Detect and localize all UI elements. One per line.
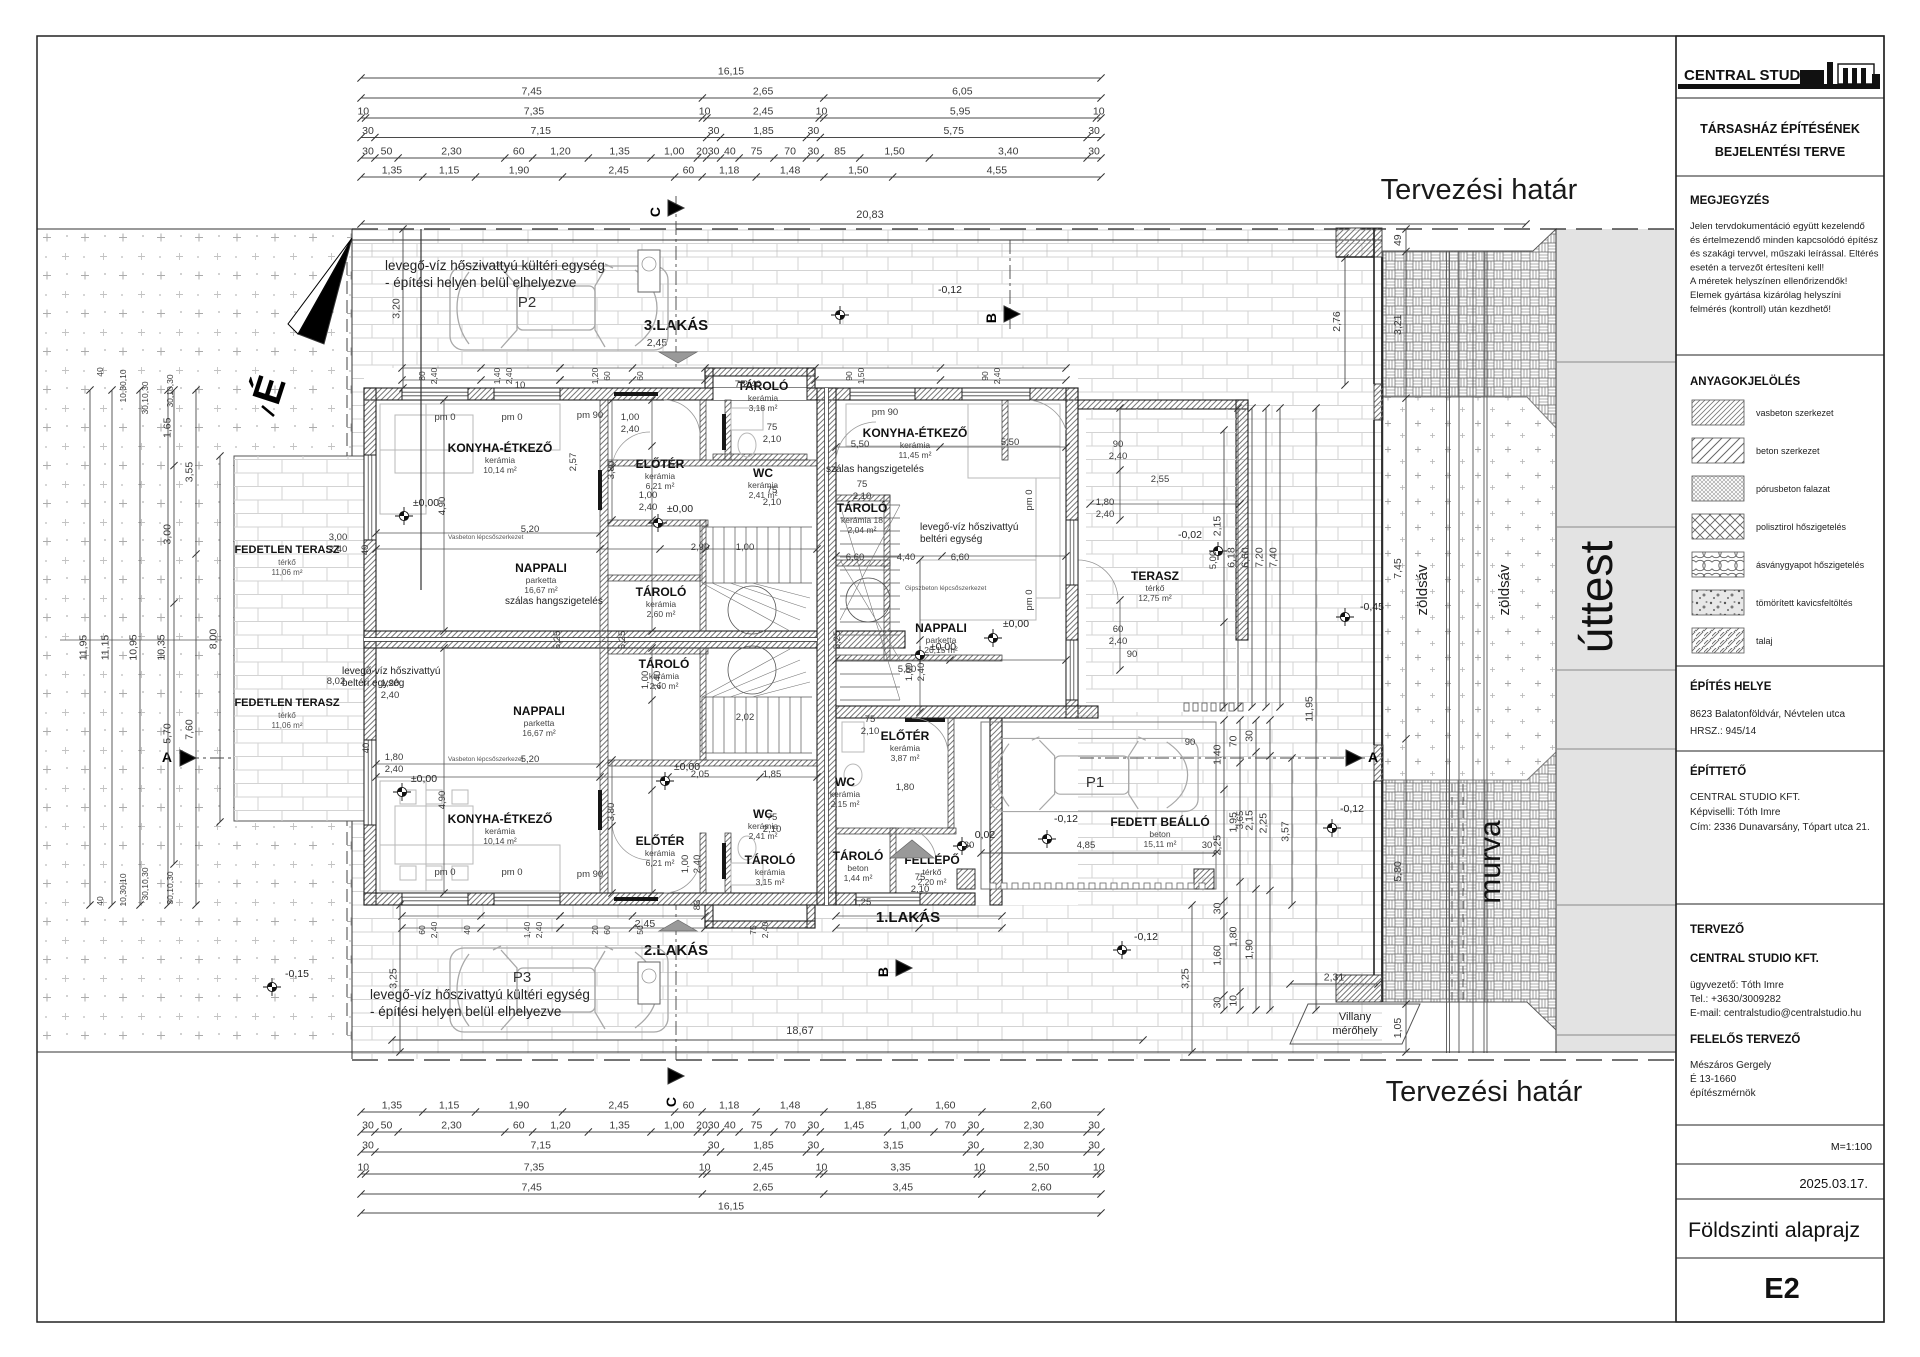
svg-text:3,40: 3,40 xyxy=(998,146,1019,158)
svg-text:KONYHA-ÉTKEZŐ: KONYHA-ÉTKEZŐ xyxy=(863,425,968,440)
svg-text:1,40: 1,40 xyxy=(522,921,532,938)
svg-text:30: 30 xyxy=(362,1120,374,1132)
svg-text:térkő: térkő xyxy=(923,867,942,877)
svg-text:1,15: 1,15 xyxy=(439,165,460,177)
svg-text:Tervezési határ: Tervezési határ xyxy=(1386,1076,1583,1108)
svg-text:30: 30 xyxy=(1088,125,1100,137)
svg-text:11,95: 11,95 xyxy=(1304,696,1316,722)
svg-text:TÁROLÓ: TÁROLÓ xyxy=(837,500,888,515)
svg-text:1,50: 1,50 xyxy=(884,146,905,158)
svg-text:felmérés (kontroll) után kezdh: felmérés (kontroll) után kezdhető! xyxy=(1690,304,1831,315)
svg-text:1,45: 1,45 xyxy=(844,1120,865,1132)
svg-text:3,15: 3,15 xyxy=(883,1140,904,1152)
svg-text:7,45: 7,45 xyxy=(1392,558,1404,579)
svg-text:1,80: 1,80 xyxy=(896,782,915,793)
svg-text:10,30,10: 10,30,10 xyxy=(118,873,128,906)
svg-text:±0,00: ±0,00 xyxy=(413,497,439,509)
svg-text:7,35: 7,35 xyxy=(524,106,545,118)
svg-text:2,45: 2,45 xyxy=(608,165,629,177)
svg-text:2,65: 2,65 xyxy=(753,86,774,98)
svg-text:2,40: 2,40 xyxy=(429,921,439,938)
svg-text:CENTRAL STUDIO KFT.: CENTRAL STUDIO KFT. xyxy=(1690,953,1819,965)
svg-text:-0,45: -0,45 xyxy=(1360,601,1384,613)
svg-text:3,15 m²: 3,15 m² xyxy=(756,877,785,887)
svg-text:2,45: 2,45 xyxy=(608,1100,629,1112)
svg-text:1,35: 1,35 xyxy=(382,165,403,177)
svg-text:pm 0: pm 0 xyxy=(1024,589,1035,610)
svg-text:kerámia: kerámia xyxy=(890,743,921,753)
svg-text:11,45 m²: 11,45 m² xyxy=(899,450,932,460)
svg-text:2,40: 2,40 xyxy=(429,367,439,384)
svg-text:75: 75 xyxy=(865,714,876,725)
svg-text:beton: beton xyxy=(847,863,869,873)
svg-text:tömörített kavicsfeltöltés: tömörített kavicsfeltöltés xyxy=(1756,598,1853,608)
svg-text:10,30,10: 10,30,10 xyxy=(118,369,128,402)
svg-text:3,25: 3,25 xyxy=(388,968,400,989)
svg-text:2,40: 2,40 xyxy=(743,379,762,390)
svg-text:beltéri egység: beltéri egység xyxy=(920,534,982,545)
svg-text:mérőhely: mérőhely xyxy=(1332,1025,1378,1037)
svg-text:±0,00: ±0,00 xyxy=(1003,618,1029,630)
svg-text:30: 30 xyxy=(1088,1120,1100,1132)
svg-text:3,20: 3,20 xyxy=(391,298,403,319)
svg-text:ügyvezető: Tóth Imre: ügyvezető: Tóth Imre xyxy=(1690,980,1784,991)
svg-text:3,80: 3,80 xyxy=(606,803,617,822)
svg-text:2,40: 2,40 xyxy=(1109,451,1128,462)
svg-text:50: 50 xyxy=(381,1120,393,1132)
svg-text:szálas hangszigetelés: szálas hangszigetelés xyxy=(505,596,603,607)
svg-text:2,10: 2,10 xyxy=(911,884,930,895)
svg-text:E-mail: centralstudio@centrals: E-mail: centralstudio@centralstudio.hu xyxy=(1690,1008,1861,1019)
svg-text:kerámia: kerámia xyxy=(900,440,931,450)
svg-text:1,60: 1,60 xyxy=(1212,945,1224,966)
svg-text:30: 30 xyxy=(1212,902,1224,914)
svg-text:2,55: 2,55 xyxy=(1151,474,1170,485)
svg-text:30: 30 xyxy=(808,146,820,158)
svg-text:1,35: 1,35 xyxy=(609,1120,630,1132)
svg-text:2,40: 2,40 xyxy=(692,855,703,874)
svg-text:30: 30 xyxy=(808,125,820,137)
svg-text:BEJELENTÉSI TERVE: BEJELENTÉSI TERVE xyxy=(1715,144,1845,159)
svg-text:kerámia: kerámia xyxy=(755,867,786,877)
svg-text:pm 0: pm 0 xyxy=(434,412,455,423)
svg-text:4,85: 4,85 xyxy=(1077,840,1096,851)
svg-text:TÁROLÓ: TÁROLÓ xyxy=(639,656,690,671)
svg-text:75: 75 xyxy=(748,925,758,935)
svg-text:6,18: 6,18 xyxy=(1226,547,1238,568)
svg-text:60: 60 xyxy=(513,1120,525,1132)
svg-text:6,21 m²: 6,21 m² xyxy=(646,858,675,868)
svg-text:esetén a tervezőt értesíteni k: esetén a tervezőt értesíteni kell! xyxy=(1690,262,1824,273)
svg-text:TÁRSASHÁZ ÉPÍTÉSÉNEK: TÁRSASHÁZ ÉPÍTÉSÉNEK xyxy=(1700,121,1860,136)
svg-text:±0,00: ±0,00 xyxy=(930,641,956,653)
svg-text:zöldsáv: zöldsáv xyxy=(1414,564,1431,615)
svg-text:85: 85 xyxy=(834,146,846,158)
svg-text:8,00: 8,00 xyxy=(208,629,220,650)
svg-text:kerámia: kerámia xyxy=(485,455,516,465)
svg-text:2,60: 2,60 xyxy=(1031,1100,1052,1112)
svg-text:P1: P1 xyxy=(1086,774,1104,791)
svg-text:3,00: 3,00 xyxy=(329,532,348,543)
svg-text:2.LAKÁS: 2.LAKÁS xyxy=(644,942,708,959)
svg-text:2,50: 2,50 xyxy=(1029,1162,1050,1174)
svg-text:pm 90: pm 90 xyxy=(872,407,898,418)
svg-text:2,30: 2,30 xyxy=(441,1120,462,1132)
svg-text:30: 30 xyxy=(1088,1140,1100,1152)
svg-text:2,40: 2,40 xyxy=(385,764,404,775)
svg-text:1,65: 1,65 xyxy=(162,417,174,438)
svg-text:2,10: 2,10 xyxy=(763,824,782,835)
svg-text:és értelmezendő minden kapcsol: és értelmezendő minden kapcsolódó építés… xyxy=(1690,235,1878,246)
svg-text:±0,00: ±0,00 xyxy=(411,773,437,785)
svg-text:30: 30 xyxy=(968,1120,980,1132)
svg-text:70: 70 xyxy=(944,1120,956,1132)
svg-text:kerámia: kerámia xyxy=(485,826,516,836)
svg-text:2,25: 2,25 xyxy=(1212,835,1224,856)
svg-text:- építési helyen belül elhelye: - építési helyen belül elhelyezve xyxy=(385,275,576,290)
svg-text:1,00: 1,00 xyxy=(640,671,651,690)
svg-text:40: 40 xyxy=(724,146,736,158)
svg-text:4,90: 4,90 xyxy=(437,497,448,516)
svg-text:7,20: 7,20 xyxy=(1254,547,1266,568)
svg-text:5,50: 5,50 xyxy=(851,439,870,450)
svg-text:30: 30 xyxy=(1244,730,1256,742)
svg-text:30: 30 xyxy=(708,1120,720,1132)
svg-text:KONYHA-ÉTKEZŐ: KONYHA-ÉTKEZŐ xyxy=(448,811,553,826)
svg-text:-0,02: -0,02 xyxy=(1178,529,1202,541)
svg-text:8,02: 8,02 xyxy=(327,676,346,687)
svg-text:B: B xyxy=(983,313,999,323)
svg-text:1,50: 1,50 xyxy=(848,165,869,177)
svg-text:2,65: 2,65 xyxy=(753,1182,774,1194)
svg-text:-0,12: -0,12 xyxy=(1054,813,1078,825)
svg-text:B: B xyxy=(875,967,891,977)
svg-text:18,67: 18,67 xyxy=(786,1025,814,1037)
svg-text:40: 40 xyxy=(724,1120,736,1132)
svg-text:30: 30 xyxy=(362,146,374,158)
svg-text:11,95: 11,95 xyxy=(78,635,90,661)
svg-text:FEDETLEN TERASZ: FEDETLEN TERASZ xyxy=(234,697,339,709)
svg-text:NAPPALI: NAPPALI xyxy=(915,621,967,635)
svg-text:90: 90 xyxy=(1127,649,1138,660)
svg-text:60: 60 xyxy=(1113,624,1124,635)
svg-text:5,25: 5,25 xyxy=(832,631,843,650)
svg-text:30,10,30: 30,10,30 xyxy=(165,374,175,407)
svg-text:75: 75 xyxy=(751,1120,763,1132)
svg-text:5,25: 5,25 xyxy=(617,631,628,650)
svg-text:NAPPALI: NAPPALI xyxy=(513,704,565,718)
svg-text:1,80: 1,80 xyxy=(385,752,404,763)
svg-text:10,14 m²: 10,14 m² xyxy=(483,836,517,846)
svg-text:70: 70 xyxy=(784,146,796,158)
svg-text:30,10,30: 30,10,30 xyxy=(140,867,150,900)
svg-text:kerámia: kerámia xyxy=(646,599,677,609)
svg-text:2,40: 2,40 xyxy=(381,690,400,701)
svg-text:pm 90: pm 90 xyxy=(577,410,603,421)
svg-text:ÉPÍTTETŐ: ÉPÍTTETŐ xyxy=(1690,765,1746,778)
svg-text:2,40: 2,40 xyxy=(534,921,544,938)
svg-text:90: 90 xyxy=(844,371,854,381)
svg-text:1,48: 1,48 xyxy=(780,1100,801,1112)
svg-text:TÁROLÓ: TÁROLÓ xyxy=(745,852,796,867)
svg-text:2,15 m²: 2,15 m² xyxy=(831,799,860,809)
svg-text:20: 20 xyxy=(696,1120,708,1132)
svg-text:75: 75 xyxy=(767,485,778,496)
svg-text:1,20: 1,20 xyxy=(381,678,400,689)
svg-text:FEDETT BEÁLLÓ: FEDETT BEÁLLÓ xyxy=(1110,814,1209,829)
svg-text:KONYHA-ÉTKEZŐ: KONYHA-ÉTKEZŐ xyxy=(448,440,553,455)
svg-text:P2: P2 xyxy=(518,294,536,311)
svg-text:16,15: 16,15 xyxy=(718,1201,744,1213)
svg-text:3,21: 3,21 xyxy=(1392,314,1404,335)
svg-text:2,10: 2,10 xyxy=(763,497,782,508)
svg-text:3,87 m²: 3,87 m² xyxy=(891,753,920,763)
svg-text:P3: P3 xyxy=(513,969,531,986)
svg-text:4,90: 4,90 xyxy=(437,791,448,810)
svg-text:3,45: 3,45 xyxy=(893,1182,914,1194)
svg-text:5,20: 5,20 xyxy=(521,524,540,535)
svg-text:3,00: 3,00 xyxy=(162,524,174,545)
svg-text:1,60: 1,60 xyxy=(935,1100,956,1112)
svg-text:levegő-víz hőszivattyú kültéri: levegő-víz hőszivattyú kültéri egység xyxy=(385,258,605,273)
svg-text:C: C xyxy=(663,1097,679,1107)
svg-text:7,15: 7,15 xyxy=(531,125,552,137)
svg-text:ELŐTÉR: ELŐTÉR xyxy=(881,728,930,743)
svg-text:beton: beton xyxy=(1149,829,1171,839)
svg-text:0,02: 0,02 xyxy=(975,829,996,841)
svg-text:zöldsáv: zöldsáv xyxy=(1496,564,1513,615)
svg-text:4,40: 4,40 xyxy=(897,552,916,563)
svg-text:Tel.: +3630/3009282: Tel.: +3630/3009282 xyxy=(1690,994,1781,1005)
svg-text:Villany: Villany xyxy=(1339,1011,1372,1023)
svg-text:beton szerkezet: beton szerkezet xyxy=(1756,446,1820,456)
svg-text:5,70: 5,70 xyxy=(162,723,174,744)
svg-text:A méretek helyszínen ellenőriz: A méretek helyszínen ellenőrizendők! xyxy=(1690,276,1847,287)
svg-text:1,00: 1,00 xyxy=(736,542,755,553)
svg-text:1,20: 1,20 xyxy=(550,1120,571,1132)
svg-text:kerámia: kerámia xyxy=(830,789,861,799)
svg-text:1,18: 1,18 xyxy=(719,1100,740,1112)
svg-text:A: A xyxy=(162,749,172,765)
svg-text:30: 30 xyxy=(1212,997,1224,1009)
svg-text:2,10: 2,10 xyxy=(763,434,782,445)
svg-text:40: 40 xyxy=(95,896,105,906)
svg-text:10,95: 10,95 xyxy=(128,634,140,660)
svg-text:1,85: 1,85 xyxy=(856,1100,877,1112)
svg-text:HRSZ.: 945/14: HRSZ.: 945/14 xyxy=(1690,726,1757,737)
svg-text:murva: murva xyxy=(1474,820,1507,904)
svg-text:kerámia: kerámia xyxy=(645,848,676,858)
svg-text:-0,15: -0,15 xyxy=(285,968,309,980)
svg-text:Cím: 2336 Dunavarsány, Tópart: Cím: 2336 Dunavarsány, Tópart utca 21. xyxy=(1690,822,1870,833)
svg-text:30,10,30: 30,10,30 xyxy=(165,871,175,904)
svg-text:90: 90 xyxy=(1185,737,1196,748)
svg-text:2,04 m²: 2,04 m² xyxy=(848,525,877,535)
svg-text:TERASZ: TERASZ xyxy=(1131,569,1179,583)
svg-text:ásványgyapot hőszigetelés: ásványgyapot hőszigetelés xyxy=(1756,560,1865,570)
svg-text:1,90: 1,90 xyxy=(509,1100,530,1112)
svg-text:8623 Balatonföldvár, Névtelen: 8623 Balatonföldvár, Névtelen utca xyxy=(1690,709,1846,720)
svg-text:1,35: 1,35 xyxy=(382,1100,403,1112)
svg-text:CENTRAL STUDIO: CENTRAL STUDIO xyxy=(1684,67,1817,84)
svg-text:2,31: 2,31 xyxy=(1324,972,1345,984)
svg-text:1,00: 1,00 xyxy=(664,146,685,158)
svg-text:TÁROLÓ: TÁROLÓ xyxy=(636,584,687,599)
svg-text:10,35: 10,35 xyxy=(156,634,168,660)
svg-text:2,10: 2,10 xyxy=(853,491,872,502)
svg-text:40: 40 xyxy=(361,743,372,754)
svg-text:1,18: 1,18 xyxy=(719,165,740,177)
svg-text:30: 30 xyxy=(1202,840,1213,851)
svg-text:40: 40 xyxy=(360,545,371,556)
svg-text:levegő-víz hőszivattyú kültéri: levegő-víz hőszivattyú kültéri egység xyxy=(370,987,590,1002)
svg-text:1,85: 1,85 xyxy=(763,769,782,780)
svg-text:60: 60 xyxy=(513,146,525,158)
svg-text:60: 60 xyxy=(683,165,695,177)
svg-text:2,45: 2,45 xyxy=(753,106,774,118)
svg-text:2,76: 2,76 xyxy=(1331,311,1343,332)
svg-text:vasbeton szerkezet: vasbeton szerkezet xyxy=(1756,408,1834,418)
svg-text:ÉPÍTÉS HELYE: ÉPÍTÉS HELYE xyxy=(1690,680,1772,693)
svg-text:16,15: 16,15 xyxy=(718,66,744,78)
svg-text:-0,12: -0,12 xyxy=(938,284,962,296)
svg-text:térkő: térkő xyxy=(278,558,296,567)
svg-text:3,18 m²: 3,18 m² xyxy=(749,403,778,413)
svg-text:1,50: 1,50 xyxy=(856,367,866,384)
svg-text:3,55: 3,55 xyxy=(184,462,196,483)
svg-text:30: 30 xyxy=(808,1120,820,1132)
svg-text:A: A xyxy=(1368,749,1378,765)
svg-text:2,10: 2,10 xyxy=(861,726,880,737)
svg-text:5,25: 5,25 xyxy=(552,631,563,650)
svg-text:7,45: 7,45 xyxy=(521,1182,542,1194)
svg-text:1,15: 1,15 xyxy=(439,1100,460,1112)
svg-text:7,40: 7,40 xyxy=(1268,547,1280,568)
svg-text:60: 60 xyxy=(683,1100,695,1112)
svg-text:Vasbeton lépcsőszerkezet: Vasbeton lépcsőszerkezet xyxy=(448,756,524,763)
svg-text:WC: WC xyxy=(753,466,773,480)
svg-text:2,40: 2,40 xyxy=(504,367,514,384)
svg-text:1,20: 1,20 xyxy=(590,367,600,384)
svg-text:49: 49 xyxy=(1392,234,1404,246)
svg-text:30: 30 xyxy=(708,125,720,137)
svg-text:-0,12: -0,12 xyxy=(1340,803,1364,815)
svg-text:E2: E2 xyxy=(1764,1273,1799,1305)
svg-text:40: 40 xyxy=(462,925,472,935)
svg-text:30: 30 xyxy=(362,125,374,137)
svg-text:1,00: 1,00 xyxy=(904,663,915,682)
svg-text:75: 75 xyxy=(751,146,763,158)
svg-text:12,75 m²: 12,75 m² xyxy=(1138,593,1172,603)
svg-text:16,67 m²: 16,67 m² xyxy=(522,728,556,738)
svg-text:5,75: 5,75 xyxy=(943,125,964,137)
svg-text:2,90: 2,90 xyxy=(691,542,710,553)
svg-text:6,60: 6,60 xyxy=(951,552,970,563)
svg-text:2,30: 2,30 xyxy=(441,146,462,158)
svg-text:50: 50 xyxy=(381,146,393,158)
svg-text:talaj: talaj xyxy=(1756,636,1773,646)
svg-text:úttest: úttest xyxy=(1570,541,1622,654)
svg-text:2,40: 2,40 xyxy=(760,921,770,938)
svg-text:80: 80 xyxy=(417,371,427,381)
svg-text:20: 20 xyxy=(696,146,708,158)
svg-text:FEDETLEN TERASZ: FEDETLEN TERASZ xyxy=(234,544,339,556)
svg-text:5,20: 5,20 xyxy=(521,754,540,765)
svg-text:-0,12: -0,12 xyxy=(1134,931,1158,943)
svg-text:1,85: 1,85 xyxy=(753,125,774,137)
svg-text:2,05: 2,05 xyxy=(691,769,710,780)
svg-text:30: 30 xyxy=(808,1140,820,1152)
svg-text:2,45: 2,45 xyxy=(753,1162,774,1174)
svg-text:1,85: 1,85 xyxy=(753,1140,774,1152)
svg-text:60: 60 xyxy=(602,925,612,935)
svg-text:É 13-1660: É 13-1660 xyxy=(1690,1072,1737,1085)
svg-text:20: 20 xyxy=(590,925,600,935)
svg-text:1,35: 1,35 xyxy=(609,146,630,158)
svg-text:2,15: 2,15 xyxy=(1212,516,1224,537)
svg-text:±0,00: ±0,00 xyxy=(667,503,693,515)
svg-text:7,35: 7,35 xyxy=(524,1162,545,1174)
svg-text:2,02: 2,02 xyxy=(736,712,755,723)
svg-text:C: C xyxy=(647,207,663,217)
svg-text:TERVEZŐ: TERVEZŐ xyxy=(1690,923,1744,936)
svg-text:Tervezési határ: Tervezési határ xyxy=(1381,174,1578,206)
svg-text:2,40: 2,40 xyxy=(1096,509,1115,520)
svg-text:1,00: 1,00 xyxy=(901,1120,922,1132)
svg-text:10,14 m²: 10,14 m² xyxy=(483,465,517,475)
svg-text:75: 75 xyxy=(767,812,778,823)
svg-text:60: 60 xyxy=(635,371,645,381)
svg-text:2,45: 2,45 xyxy=(647,337,668,349)
svg-text:75: 75 xyxy=(767,422,778,433)
svg-text:5,50: 5,50 xyxy=(1001,437,1020,448)
svg-text:2,60 m²: 2,60 m² xyxy=(647,609,676,619)
svg-text:parketta: parketta xyxy=(526,575,557,585)
svg-text:30: 30 xyxy=(362,1140,374,1152)
svg-text:30,10,30: 30,10,30 xyxy=(140,381,150,414)
svg-text:7,45: 7,45 xyxy=(521,86,542,98)
svg-text:2,25: 2,25 xyxy=(1258,813,1270,834)
svg-text:szálas hangszigetelés: szálas hangszigetelés xyxy=(826,464,924,475)
svg-text:30: 30 xyxy=(1088,146,1100,158)
svg-text:2,40: 2,40 xyxy=(621,424,640,435)
svg-text:1,20: 1,20 xyxy=(550,146,571,158)
svg-text:1,44 m²: 1,44 m² xyxy=(844,873,873,883)
svg-text:M=1:100: M=1:100 xyxy=(1831,1141,1872,1153)
svg-text:15,11 m²: 15,11 m² xyxy=(1144,839,1177,849)
svg-text:20,83: 20,83 xyxy=(856,209,884,221)
svg-text:1,40: 1,40 xyxy=(1212,744,1224,765)
svg-text:pórusbeton falazat: pórusbeton falazat xyxy=(1756,484,1831,494)
svg-text:60: 60 xyxy=(602,371,612,381)
svg-text:1,05: 1,05 xyxy=(1392,1018,1404,1039)
svg-text:Gipszbeton lépcsőszerkezet: Gipszbeton lépcsőszerkezet xyxy=(905,585,986,592)
svg-text:Földszinti alaprajz: Földszinti alaprajz xyxy=(1688,1218,1860,1242)
svg-text:polisztirol hőszigetelés: polisztirol hőszigetelés xyxy=(1756,522,1847,532)
svg-text:3,35: 3,35 xyxy=(890,1162,911,1174)
svg-text:7,60: 7,60 xyxy=(184,719,196,740)
svg-text:3,65: 3,65 xyxy=(1235,811,1246,830)
svg-text:1,90: 1,90 xyxy=(509,165,530,177)
svg-text:50: 50 xyxy=(635,925,645,935)
svg-text:2,30: 2,30 xyxy=(1024,1120,1045,1132)
svg-text:75: 75 xyxy=(915,872,926,883)
svg-text:1,25: 1,25 xyxy=(853,897,872,908)
svg-text:és szakági tervvel, műszaki le: és szakági tervvel, műszaki leírással. E… xyxy=(1690,249,1879,260)
svg-text:60: 60 xyxy=(417,925,427,935)
svg-text:40: 40 xyxy=(95,367,105,377)
svg-text:6,05: 6,05 xyxy=(952,86,973,98)
